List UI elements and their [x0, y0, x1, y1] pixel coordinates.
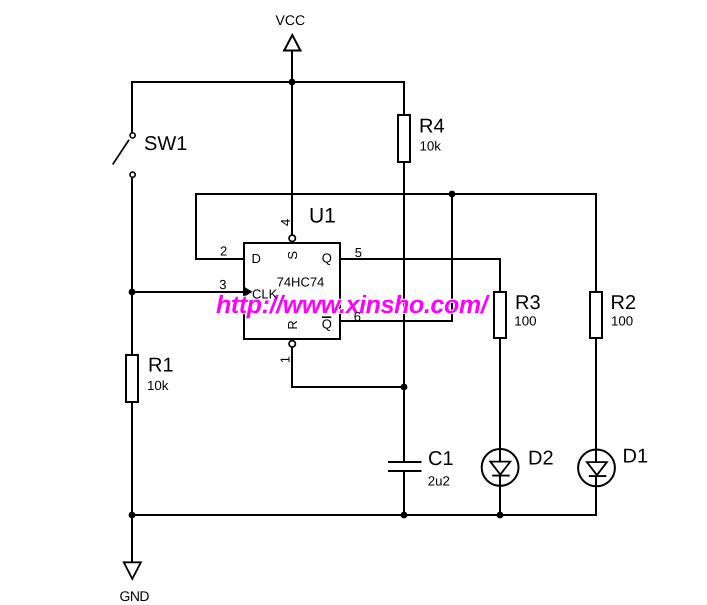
svg-text:R: R — [285, 320, 300, 329]
svg-text:VCC: VCC — [276, 12, 306, 28]
svg-text:10k: 10k — [420, 139, 442, 154]
svg-text:74HC74: 74HC74 — [277, 275, 325, 290]
svg-text:GND: GND — [120, 588, 150, 604]
svg-text:2u2: 2u2 — [428, 473, 450, 488]
svg-text:3: 3 — [219, 277, 226, 292]
svg-text:D1: D1 — [623, 446, 649, 468]
svg-text:1: 1 — [278, 356, 293, 363]
svg-text:2: 2 — [220, 244, 227, 259]
svg-text:100: 100 — [514, 313, 536, 328]
svg-text:5: 5 — [355, 245, 362, 260]
svg-text:R4: R4 — [419, 116, 445, 138]
svg-text:100: 100 — [611, 313, 633, 328]
svg-text:CLK: CLK — [252, 286, 278, 301]
svg-text:D2: D2 — [528, 448, 554, 470]
svg-text:Q: Q — [322, 316, 332, 331]
svg-text:R3: R3 — [515, 292, 541, 314]
svg-text:6: 6 — [354, 309, 361, 324]
svg-text:4: 4 — [278, 219, 293, 226]
svg-text:R1: R1 — [148, 355, 174, 377]
svg-text:S: S — [285, 251, 300, 260]
svg-text:Q: Q — [322, 251, 332, 266]
svg-text:D: D — [252, 251, 261, 266]
svg-text:10k: 10k — [147, 378, 169, 393]
svg-text:SW1: SW1 — [144, 133, 187, 155]
svg-text:R2: R2 — [611, 292, 637, 314]
svg-text:C1: C1 — [428, 448, 454, 470]
svg-text:U1: U1 — [309, 205, 336, 228]
